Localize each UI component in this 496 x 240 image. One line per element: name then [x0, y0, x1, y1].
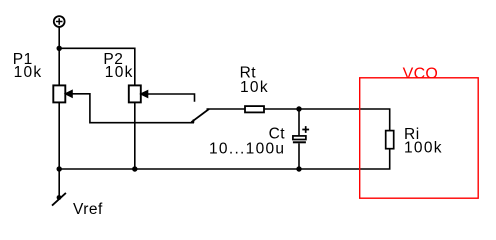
Vref arrow dot — [57, 195, 62, 200]
node B junction dot — [296, 106, 301, 111]
capacitor Ct polarity plus sign — [302, 126, 309, 133]
junction dot rail at P2 — [132, 166, 137, 171]
svg-text:Vref: Vref — [73, 201, 103, 218]
node A junction dot — [57, 46, 62, 51]
potentiometer P2 wiper arrow — [140, 90, 147, 97]
wire node B to Ri top — [299, 109, 390, 131]
wire P1 bottom to rail — [58, 102, 60, 169]
junction dot rail at Ct — [296, 166, 301, 171]
wire P2 wiper to open switch contact — [147, 94, 194, 102]
bottom rail wire — [59, 149, 390, 169]
junction dot rail at P1 — [57, 166, 62, 171]
wire Ct bottom to rail — [298, 143, 300, 169]
svg-text:VCO: VCO — [403, 65, 439, 82]
svg-text:10k: 10k — [240, 79, 269, 96]
wire Rt to node B — [264, 108, 299, 110]
wire P2 bottom to rail — [134, 102, 136, 169]
resistor Rt body — [245, 106, 264, 112]
potentiometer P1 body — [53, 85, 65, 102]
wire P1 wiper to switch (right, down, right) — [72, 94, 194, 123]
potentiometer P2 body — [129, 85, 141, 102]
switch blade S1 — [191, 109, 209, 122]
capacitor Ct positive plate — [293, 136, 306, 140]
wire node B to Ct top — [298, 109, 300, 136]
VCO box (red) — [360, 78, 479, 198]
svg-text:10k: 10k — [105, 64, 134, 81]
svg-text:100k: 100k — [404, 140, 443, 157]
supply terminal +V circle — [54, 16, 65, 27]
potentiometer P1 wiper arrow — [65, 90, 72, 97]
resistor Ri body — [386, 131, 394, 149]
svg-text:10...100u: 10...100u — [209, 140, 285, 157]
wire supply to node A — [58, 27, 60, 48]
wire top rail node A to P2 top — [59, 48, 135, 85]
wire node A to P1 top — [58, 48, 60, 85]
capacitor Ct negative plate — [293, 141, 306, 143]
Vref slash — [52, 193, 66, 206]
wire switch to Rt — [207, 108, 246, 110]
svg-text:10k: 10k — [14, 64, 43, 81]
Vref stub wire — [58, 169, 60, 198]
